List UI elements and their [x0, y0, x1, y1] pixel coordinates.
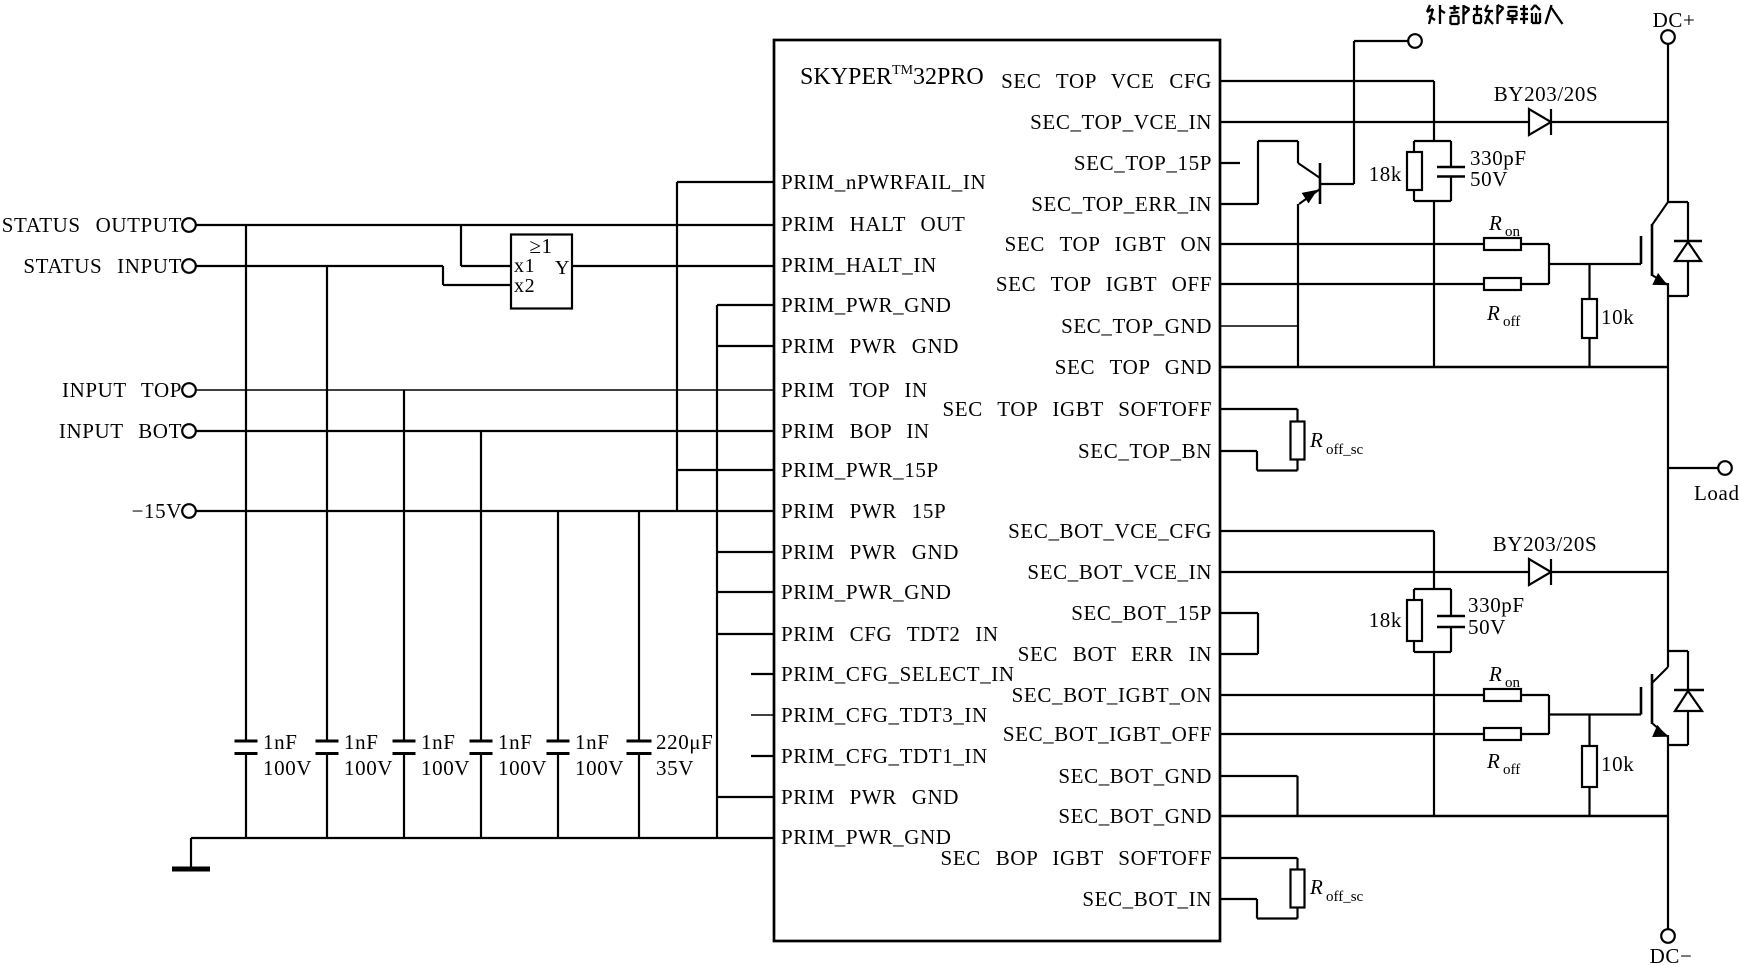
- resistor R2 Ron: [1484, 238, 1521, 250]
- svg-text:on: on: [1505, 224, 1521, 240]
- svg-text:on: on: [1505, 675, 1521, 691]
- wire SEC TOP GND rail: [1220, 366, 1668, 369]
- wire SEC BOT GND rail: [1220, 815, 1668, 818]
- wire SEC_BOT_15P to SEC BOT ERR IN bracket: [1220, 612, 1258, 614]
- svg-text:SEC_BOT_VCE_IN: SEC_BOT_VCE_IN: [1027, 560, 1212, 584]
- wire STATUS OUTPUT to PRIM HALT OUT: [196, 224, 774, 226]
- transistor Q3 IGBT bottom: [1652, 667, 1668, 683]
- capacitor C5 1nF 100V: [547, 740, 570, 743]
- svg-text:R: R: [1309, 875, 1323, 899]
- svg-text:10k: 10k: [1601, 752, 1634, 776]
- wire INPUT TOP to PRIM TOP IN: [196, 389, 774, 391]
- node DC- terminal: [1661, 929, 1675, 943]
- svg-text:INPUT BOT: INPUT BOT: [59, 419, 182, 443]
- svg-text:Y: Y: [555, 257, 570, 279]
- wire SEC TOP VCE CFG: [1220, 80, 1434, 82]
- wire stub SEC_TOP_15P: [1220, 162, 1240, 164]
- resistor R5 Roff_sc: [1291, 422, 1305, 460]
- svg-text:SEC TOP GND: SEC TOP GND: [1055, 355, 1212, 379]
- svg-text:35V: 35V: [656, 756, 694, 780]
- svg-text:PRIM TOP IN: PRIM TOP IN: [781, 378, 928, 402]
- resistor R1 18k with capacitor C7 parallel block: [1414, 140, 1451, 142]
- wire OR gate output Y to PRIM_HALT_IN: [572, 265, 774, 267]
- wire jog down to OR gate input x2: [442, 266, 444, 285]
- wire vertical column for C5: [557, 511, 559, 741]
- wire SEC_TOP_GND pin: [1220, 325, 1298, 327]
- resistor R3 Roff: [1484, 278, 1521, 290]
- wire Q1 emitter down to SEC TOP GND rail: [1297, 204, 1299, 367]
- transistor Q1 PNP: [1298, 163, 1320, 178]
- svg-text:100V: 100V: [575, 756, 624, 780]
- wire -15V to PRIM PWR 15P: [196, 510, 774, 512]
- resistor R6 18k with capacitor C8 parallel block: [1414, 588, 1451, 590]
- resistor R9 10k: [1588, 715, 1590, 747]
- svg-text:SEC BOT ERR IN: SEC BOT ERR IN: [1018, 642, 1212, 666]
- wire SEC_BOT_VCE_IN to phase rail: [1220, 571, 1529, 573]
- svg-text:10k: 10k: [1601, 305, 1634, 329]
- wire SEC_TOP_ERR_IN to Q1 collector: [1220, 203, 1258, 205]
- wire PRIM_PWR_GND pin4: [717, 304, 774, 306]
- capacitor C7 330pF 50V: [1450, 141, 1452, 167]
- wire vertical column for C3: [403, 390, 405, 741]
- svg-text:DC−: DC−: [1650, 944, 1693, 965]
- node Load terminal: [1668, 467, 1718, 469]
- wire stub PRIM_CFG_TDT1_IN: [751, 755, 774, 757]
- node DC+ terminal: [1661, 30, 1675, 44]
- svg-text:PRIM_CFG_TDT1_IN: PRIM_CFG_TDT1_IN: [781, 744, 988, 768]
- wire SEC TOP VCE CFG down to RC and GND rail: [1433, 201, 1435, 367]
- node INPUT BOT terminal: [182, 424, 196, 438]
- node STATUS INPUT terminal: [182, 259, 196, 273]
- wire PRIM_nPWRFAIL_IN: [677, 181, 774, 183]
- svg-text:SEC TOP IGBT SOFTOFF: SEC TOP IGBT SOFTOFF: [942, 397, 1212, 421]
- svg-text:330pF: 330pF: [1468, 593, 1525, 617]
- capacitor C2 1nF 100V: [316, 740, 339, 743]
- svg-text:1nF: 1nF: [575, 730, 609, 754]
- svg-text:SEC TOP IGBT OFF: SEC TOP IGBT OFF: [996, 272, 1212, 296]
- svg-text:BY203/20S: BY203/20S: [1493, 532, 1598, 556]
- svg-text:100V: 100V: [421, 756, 470, 780]
- capacitor C1 1nF 100V: [235, 740, 258, 743]
- svg-text:R: R: [1486, 301, 1500, 325]
- svg-text:off_sc: off_sc: [1326, 442, 1364, 458]
- svg-text:100V: 100V: [263, 756, 312, 780]
- svg-text:SEC_BOT_GND: SEC_BOT_GND: [1058, 804, 1212, 828]
- wire SEC TOP IGBT SOFTOFF: [1220, 408, 1298, 410]
- svg-text:DC+: DC+: [1653, 8, 1696, 32]
- svg-text:18k: 18k: [1369, 162, 1402, 186]
- svg-text:off: off: [1503, 314, 1520, 330]
- wire bus PRIM_nPWRFAIL/PRIM_PWR_15P vertical: [676, 182, 678, 511]
- svg-text:SEC_BOT_IGBT_OFF: SEC_BOT_IGBT_OFF: [1003, 722, 1212, 746]
- svg-text:SEC_BOT_IN: SEC_BOT_IN: [1082, 887, 1212, 911]
- wire PRIM_PWR_GND pin11: [717, 591, 774, 593]
- svg-text:PRIM CFG TDT2 IN: PRIM CFG TDT2 IN: [781, 622, 999, 646]
- node -15V terminal: [182, 504, 196, 518]
- svg-text:STATUS OUTPUT: STATUS OUTPUT: [2, 213, 182, 237]
- resistor R10 Roff_sc: [1291, 870, 1305, 908]
- diode D3 BY203/20S: [1529, 559, 1551, 585]
- svg-text:50V: 50V: [1470, 167, 1508, 191]
- svg-text:R: R: [1488, 211, 1502, 235]
- diode D1 BY203/20S: [1529, 109, 1551, 135]
- wire PRIM PWR GND pin10: [717, 551, 774, 553]
- wire SEC_BOT_IN to Roff_sc: [1220, 898, 1257, 900]
- svg-text:220μF: 220μF: [656, 730, 713, 754]
- svg-text:SEC_TOP_BN: SEC_TOP_BN: [1078, 439, 1212, 463]
- svg-text:1nF: 1nF: [263, 730, 297, 754]
- svg-text:PRIM_PWR_GND: PRIM_PWR_GND: [781, 580, 952, 604]
- wire SEC_BOT_VCE_CFG down to RC and GND rail: [1433, 652, 1435, 816]
- svg-text:SEC_BOT_15P: SEC_BOT_15P: [1071, 601, 1212, 625]
- svg-text:PRIM_nPWRFAIL_IN: PRIM_nPWRFAIL_IN: [781, 170, 986, 194]
- wire DC+ rail down: [1667, 44, 1669, 202]
- wire gate feed to IGBT Q3: [1548, 695, 1550, 734]
- wire PRIM_PWR_15P: [677, 469, 774, 471]
- wire Q3 emitter to DC-: [1667, 735, 1669, 929]
- wire SEC_BOT_GND pin to rail drop: [1220, 775, 1298, 777]
- diode D4 freewheel bottom: [1668, 650, 1688, 652]
- wire stub PRIM_CFG_TDT3_IN: [751, 714, 774, 716]
- wire SEC_TOP_BN to Roff_sc: [1220, 450, 1257, 452]
- wire Q1 base to external fault input: [1320, 183, 1354, 185]
- svg-text:Load: Load: [1694, 481, 1740, 505]
- wire Q2 emitter / phase node vertical: [1667, 283, 1669, 667]
- wire STATUS INPUT: [196, 265, 443, 267]
- wire stub PRIM_CFG_SELECT_IN: [751, 673, 774, 675]
- node STATUS OUTPUT terminal: [182, 218, 196, 232]
- wire vertical column for C6: [638, 511, 640, 741]
- wire SEC TOP IGBT ON: [1220, 243, 1484, 245]
- resistor R7 Ron: [1484, 689, 1521, 701]
- svg-text:BY203/20S: BY203/20S: [1494, 82, 1599, 106]
- svg-text:−15V: −15V: [132, 499, 182, 523]
- wire PRIM PWR GND pin16: [717, 796, 774, 798]
- wire SEC_TOP_VCE_IN to DC+ rail: [1220, 121, 1529, 123]
- svg-text:SKYPERTM32PRO: SKYPERTM32PRO: [800, 63, 984, 90]
- wire SEC TOP IGBT OFF: [1220, 283, 1484, 285]
- capacitor C3 1nF 100V: [393, 740, 416, 743]
- wire branch down to OR gate input x1: [460, 225, 462, 266]
- svg-text:STATUS INPUT: STATUS INPUT: [23, 254, 182, 278]
- ground: [190, 838, 192, 868]
- label external fault input (chinese): [1427, 5, 1563, 24]
- wire gate feed to IGBT Q2: [1548, 244, 1550, 284]
- svg-text:PRIM PWR GND: PRIM PWR GND: [781, 334, 959, 358]
- svg-text:PRIM_PWR_15P: PRIM_PWR_15P: [781, 458, 939, 482]
- svg-text:PRIM_PWR_GND: PRIM_PWR_GND: [781, 825, 952, 849]
- node external fault input terminal: [1354, 40, 1408, 42]
- svg-text:PRIM PWR GND: PRIM PWR GND: [781, 785, 959, 809]
- wire INPUT BOT to PRIM BOP IN: [196, 430, 774, 432]
- svg-text:SEC BOP IGBT SOFTOFF: SEC BOP IGBT SOFTOFF: [941, 846, 1212, 870]
- svg-text:100V: 100V: [498, 756, 547, 780]
- wire SEC_BOT_IGBT_ON: [1220, 694, 1484, 696]
- svg-text:off: off: [1503, 762, 1520, 778]
- svg-text:SEC TOP VCE CFG: SEC TOP VCE CFG: [1001, 69, 1212, 93]
- wire vertical column for C2: [326, 266, 328, 741]
- svg-text:SEC_TOP_15P: SEC_TOP_15P: [1074, 151, 1212, 175]
- svg-text:SEC_BOT_GND: SEC_BOT_GND: [1058, 764, 1212, 788]
- transistor Q2 IGBT top: [1652, 202, 1668, 225]
- svg-text:SEC_TOP_VCE_IN: SEC_TOP_VCE_IN: [1030, 110, 1212, 134]
- svg-text:R: R: [1488, 662, 1502, 686]
- svg-text:SEC_BOT_IGBT_ON: SEC_BOT_IGBT_ON: [1012, 683, 1212, 707]
- svg-text:PRIM PWR 15P: PRIM PWR 15P: [781, 499, 946, 523]
- svg-text:off_sc: off_sc: [1326, 889, 1364, 905]
- svg-text:SEC_BOT_VCE_CFG: SEC_BOT_VCE_CFG: [1008, 519, 1212, 543]
- svg-text:SEC_TOP_GND: SEC_TOP_GND: [1061, 314, 1212, 338]
- or-gate U1 box: [511, 235, 572, 309]
- svg-text:PRIM HALT OUT: PRIM HALT OUT: [781, 212, 966, 236]
- svg-text:PRIM PWR GND: PRIM PWR GND: [781, 540, 959, 564]
- wire SEC_BOT_VCE_CFG: [1220, 530, 1434, 532]
- resistor R4 10k: [1588, 264, 1590, 299]
- svg-text:R: R: [1309, 428, 1323, 452]
- svg-text:18k: 18k: [1369, 608, 1402, 632]
- capacitor C8 330pF 50V: [1450, 589, 1452, 616]
- wire SEC_BOT_IGBT_OFF: [1220, 733, 1484, 735]
- wire PRIM CFG TDT2 IN: [717, 633, 774, 635]
- svg-text:1nF: 1nF: [498, 730, 532, 754]
- capacitor C6 220uF 35V: [627, 740, 652, 743]
- op-amp U2 SKYPER 32PRO body: [774, 40, 1220, 941]
- svg-text:PRIM_CFG_SELECT_IN: PRIM_CFG_SELECT_IN: [781, 662, 1015, 686]
- svg-text:PRIM_HALT_IN: PRIM_HALT_IN: [781, 253, 937, 277]
- svg-text:SEC_TOP_ERR_IN: SEC_TOP_ERR_IN: [1031, 192, 1212, 216]
- svg-text:1nF: 1nF: [344, 730, 378, 754]
- diode D2 freewheel top: [1668, 201, 1688, 203]
- svg-text:50V: 50V: [1468, 615, 1506, 639]
- svg-text:INPUT TOP: INPUT TOP: [62, 378, 182, 402]
- svg-text:x1: x1: [514, 255, 535, 277]
- wire SEC BOP IGBT SOFTOFF: [1220, 857, 1298, 859]
- wire vertical column for C4: [480, 431, 482, 741]
- svg-text:100V: 100V: [344, 756, 393, 780]
- capacitor C4 1nF 100V: [470, 740, 493, 743]
- svg-text:PRIM_PWR_GND: PRIM_PWR_GND: [781, 293, 952, 317]
- wire PRIM PWR GND pin5: [717, 345, 774, 347]
- resistor R8 Roff: [1484, 728, 1521, 740]
- svg-text:R: R: [1486, 749, 1500, 773]
- wire vertical column for C1: [245, 225, 247, 741]
- node INPUT TOP terminal: [182, 383, 196, 397]
- svg-text:SEC TOP IGBT ON: SEC TOP IGBT ON: [1005, 232, 1212, 256]
- svg-text:x2: x2: [514, 275, 535, 297]
- wire bus PRIM ground vertical: [716, 305, 718, 838]
- svg-text:PRIM_CFG_TDT3_IN: PRIM_CFG_TDT3_IN: [781, 703, 988, 727]
- wire ground rail PRIM_PWR_GND: [191, 837, 774, 839]
- svg-text:PRIM BOP IN: PRIM BOP IN: [781, 419, 930, 443]
- svg-text:1nF: 1nF: [421, 730, 455, 754]
